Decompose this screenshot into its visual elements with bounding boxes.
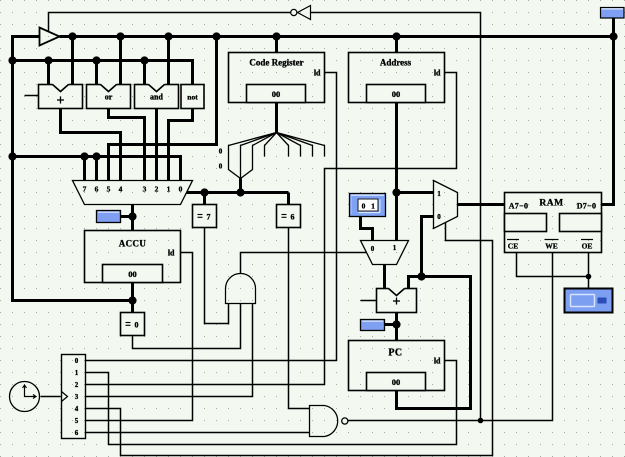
svg-text:ACCU: ACCU (119, 239, 147, 249)
splitter leg bit h (277, 133, 325, 157)
svg-text:7: 7 (207, 213, 211, 222)
svg-text:6: 6 (95, 185, 99, 194)
node leftbus-rail60 (8, 56, 16, 64)
wire operand rail y=60 (13, 61, 193, 85)
svg-text:1: 1 (75, 369, 79, 377)
wire OE down to terminal (588, 253, 590, 289)
node rail36-codereg (272, 32, 280, 40)
node rail60-andA (140, 56, 148, 64)
ALU result multiplexer MUX1 (73, 181, 193, 205)
wire RAM data bus right (602, 37, 614, 205)
comparator =0 (121, 313, 145, 336)
svg-text:4: 4 (75, 405, 79, 413)
splitter leg bit d (265, 133, 277, 157)
splitter fan from code register (229, 133, 325, 179)
wire =6 output to NAND input (289, 228, 310, 409)
svg-text:or: or (105, 93, 113, 102)
wire code register input (275, 37, 278, 53)
wire =7 output to AND gate (205, 228, 229, 324)
node rail36-orB (116, 32, 124, 40)
svg-text:00: 00 (392, 89, 401, 99)
node pcin-probe (392, 320, 400, 328)
svg-text:RAM: RAM (539, 199, 563, 209)
wire CE to OE tie (517, 253, 589, 277)
wire adder output to mux pin4 (61, 109, 121, 181)
RAM block (505, 193, 602, 253)
wire address register input (395, 37, 398, 53)
node rail36-address (392, 32, 400, 40)
probe pin at alu output (blue) (97, 211, 121, 223)
svg-text:and: and (150, 93, 163, 102)
register Code Register (229, 53, 325, 103)
wire pc output loop to incrementer (397, 277, 471, 409)
node opcode-eq7 (200, 188, 208, 196)
wire not output to mux pin1 (169, 109, 193, 181)
node leftbus-rail156 (8, 152, 16, 160)
not block (181, 85, 204, 109)
node rail60-orA (92, 56, 100, 64)
wire phase4 to addr-mux select (86, 223, 493, 456)
svg-text:5: 5 (75, 417, 79, 425)
svg-text:6: 6 (291, 213, 295, 222)
wire rail60 to and A input (143, 61, 146, 85)
comparator =6 (277, 205, 301, 228)
wire =0 output to AND gate (133, 304, 241, 349)
node accuout-loop (128, 296, 136, 304)
wire phase1 to PC ld (86, 361, 457, 445)
svg-text:3: 3 (143, 185, 147, 194)
node rail36-tap216 (212, 32, 220, 40)
wire rail36 to or B input (119, 37, 122, 85)
inverter U2 top (291, 6, 311, 20)
wire and output to mux pin2 (155, 109, 158, 181)
register PC (349, 341, 445, 391)
wire clock to ring counter (41, 396, 61, 398)
svg-text:D7−0: D7−0 (577, 202, 597, 211)
svg-text:1: 1 (167, 185, 171, 194)
node rail60-adderA (44, 56, 52, 64)
svg-text:1: 1 (437, 190, 441, 198)
svg-text:ld: ld (168, 249, 175, 258)
2-bit input pin showing 0 1 (350, 194, 386, 217)
svg-text:ld: ld (434, 69, 441, 78)
wire code register output stem to splitter (275, 103, 278, 133)
clock component (10, 382, 40, 412)
wire phase0 to CodeRegister ld (86, 73, 337, 361)
wire phase3 to AND gate (86, 304, 253, 397)
wire addr mux output to RAM A (458, 203, 505, 206)
wire opcode to comparator =7 (203, 193, 206, 205)
svg-text:0: 0 (437, 213, 441, 221)
wire address node to addr mux input 1 (397, 191, 434, 194)
wire bus tap to mux pin5 (109, 37, 217, 181)
pc-mux MUX2 (south facing) (361, 241, 409, 265)
wire adder carry stub (25, 95, 39, 97)
svg-text:not: not (187, 93, 198, 102)
svg-text:3: 3 (75, 393, 79, 401)
svg-text:1: 1 (393, 244, 397, 252)
wire AND output to pc-mux select (241, 253, 367, 274)
svg-text:ld: ld (434, 357, 441, 366)
svg-text:00: 00 (272, 89, 281, 99)
node ce-oe (586, 274, 592, 280)
wire phase6 to NAND input (86, 432, 310, 434)
wire address register output down to pc-mux (395, 103, 398, 241)
wire alu mux output to ACCU (131, 205, 134, 231)
wire rail156 to mux pin6 (95, 157, 98, 181)
wire probe to alu mux output node (121, 215, 133, 218)
tri-state buffer B1 top-left (40, 28, 60, 46)
wire incrementer carry stub (361, 300, 377, 302)
terminal component bottom right (blue) (565, 289, 613, 313)
node opcode-bundle (236, 188, 244, 196)
svg-text:4: 4 (119, 185, 123, 194)
wire or output to mux pin3 (109, 109, 145, 181)
register ACCU (85, 231, 181, 283)
wire NAND output to WE (348, 253, 553, 421)
wire probe tap at PC input (385, 323, 397, 326)
splitter leg bit f (277, 133, 301, 157)
wire 2bit pin to pc-mux select elbow (361, 217, 373, 241)
svg-text:0: 0 (371, 245, 375, 253)
wire rail60 to adder A input (47, 61, 50, 85)
ring counter / phase decoder (62, 355, 86, 439)
RAM cell box right (560, 214, 602, 232)
svg-text:0: 0 (362, 201, 366, 210)
svg-text:1: 1 (371, 201, 375, 210)
node aluout-probe (128, 212, 136, 220)
svg-text:5: 5 (107, 185, 111, 194)
node rail156-pin6 (92, 152, 100, 160)
and block (135, 83, 179, 108)
wire pc-mux output to incrementer (383, 265, 386, 289)
svg-text:0: 0 (219, 148, 223, 156)
wire opcode select bus y=192 (187, 191, 289, 194)
NAND gate (east facing) (310, 406, 338, 437)
node addressbus-mux (392, 188, 400, 196)
wire top right pin to bus (612, 18, 615, 37)
svg-text:0: 0 (135, 321, 139, 330)
adder label (57, 99, 64, 101)
addr-mux MUX3 (east facing) (434, 181, 458, 229)
wire ACCU output down to =0 (131, 283, 134, 313)
wire main accumulator bus rail y=36 (60, 35, 614, 38)
node rail36-rightbus (609, 32, 617, 40)
or block (87, 83, 131, 108)
node rail156-pin7 (80, 152, 88, 160)
svg-text:6: 6 (75, 429, 79, 437)
svg-text:7: 7 (83, 185, 87, 194)
svg-text:0: 0 (179, 185, 183, 194)
svg-text:2: 2 (155, 185, 159, 194)
svg-text:WE: WE (545, 242, 558, 251)
mux1 pin labels (83, 185, 183, 194)
input pin top right (blue) (601, 8, 625, 19)
splitter leg bit e (277, 133, 289, 157)
wire phase2 to Address ld (86, 73, 457, 385)
RAM cell box left (505, 214, 547, 232)
wire rail36 to adder B input (71, 37, 74, 85)
AND gate (north facing) (226, 274, 256, 304)
wire opcode to comparator =6 (287, 193, 290, 205)
svg-text:PC: PC (388, 348, 402, 359)
wire pc loop to addr mux input 0 (422, 217, 434, 277)
node pcloop-incr (417, 272, 425, 280)
svg-text:Code Register: Code Register (249, 58, 303, 68)
wire buffer enable line (49, 13, 291, 32)
comparator =7 (193, 205, 217, 228)
wire incrementer output to PC (395, 313, 398, 341)
incrementer label (393, 300, 400, 302)
node rail36-andB (164, 32, 172, 40)
svg-text:Address: Address (380, 58, 412, 68)
splitter leg bit c (241, 133, 277, 179)
wire accumulator feedback bus left loop (13, 37, 133, 301)
svg-text:0: 0 (75, 357, 79, 365)
splitter leg bit g (277, 133, 313, 157)
node nandout-enable (478, 418, 484, 424)
svg-text:OE: OE (582, 242, 593, 251)
svg-text:0: 0 (219, 163, 223, 171)
svg-text:ld: ld (314, 69, 321, 78)
svg-text:CE: CE (508, 242, 518, 251)
probe pin at PC input (blue) (361, 320, 385, 331)
wire rail y=156 to mux pin0 (13, 157, 181, 181)
splitter leg bit a (229, 133, 277, 179)
svg-text:2: 2 (75, 381, 79, 389)
svg-text:00: 00 (128, 269, 137, 279)
adder block "+" (39, 83, 83, 108)
incrementer "+" block (377, 287, 417, 312)
wire phase5 to ACCU ld (86, 253, 193, 421)
svg-text:A7−0: A7−0 (509, 202, 529, 211)
wire rail156 to mux pin7 (83, 157, 86, 181)
wire opcode bundle (239, 179, 242, 193)
wire rail60 to or A input (95, 61, 98, 85)
wire inverter input from control (311, 13, 481, 421)
svg-text:00: 00 (392, 377, 401, 387)
register Address (349, 53, 445, 103)
wire rail36 to and B input (167, 37, 170, 85)
node rail36-adderB (68, 32, 76, 40)
splitter leg bit b (241, 133, 277, 179)
